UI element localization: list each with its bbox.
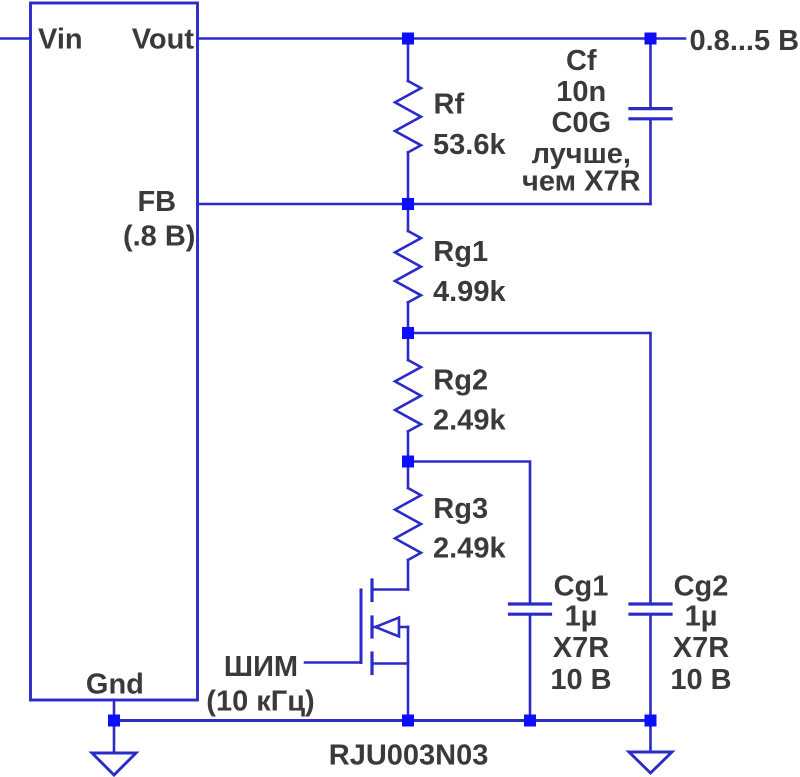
transistor Q1 channel segment drain xyxy=(370,580,373,601)
svg-text:RJU003N03: RJU003N03 xyxy=(329,740,489,772)
svg-text:Cf: Cf xyxy=(566,45,597,77)
wire node B to Cg2 xyxy=(408,333,651,604)
svg-text:2.49k: 2.49k xyxy=(433,533,506,565)
capacitor Cg1 plates xyxy=(510,602,551,605)
svg-text:10 В: 10 В xyxy=(670,664,731,696)
svg-text:1µ: 1µ xyxy=(565,600,598,632)
wire FB net xyxy=(198,203,651,206)
svg-text:ШИМ: ШИМ xyxy=(224,651,298,683)
svg-text:Cg1: Cg1 xyxy=(554,570,609,602)
svg-text:(.8 В): (.8 В) xyxy=(123,220,196,252)
svg-text:Rg3: Rg3 xyxy=(433,493,488,525)
wire PWM gate input xyxy=(305,661,361,664)
svg-text:Rg2: Rg2 xyxy=(433,365,488,397)
transistor Q1 channel segment source xyxy=(370,653,373,674)
svg-text:53.6k: 53.6k xyxy=(433,129,506,161)
svg-text:Rf: Rf xyxy=(434,89,465,121)
transistor Q1 body stub xyxy=(372,626,408,629)
svg-text:Rg1: Rg1 xyxy=(433,236,488,268)
ground symbol left xyxy=(92,753,136,775)
node Vout-Rf xyxy=(402,33,414,45)
node Rg2-Rg3 xyxy=(402,456,414,468)
wire Vout bus xyxy=(198,37,686,40)
transistor Q1 source stub xyxy=(372,662,408,665)
wire node C to Cg1 xyxy=(408,462,530,605)
right ground lead xyxy=(649,721,652,752)
svg-text:C0G: C0G xyxy=(551,107,611,139)
capacitor Cf plates xyxy=(630,107,671,110)
svg-text:Vout: Vout xyxy=(132,24,195,56)
transistor Q1 gate bar xyxy=(360,590,363,663)
svg-text:FB: FB xyxy=(137,186,176,218)
svg-text:Gnd: Gnd xyxy=(86,668,144,700)
svg-text:10n: 10n xyxy=(556,76,606,108)
ground symbol right xyxy=(629,752,672,773)
svg-text:4.99k: 4.99k xyxy=(433,276,506,308)
svg-text:Vin: Vin xyxy=(38,24,83,56)
node Cg2-rail xyxy=(645,715,657,727)
node Cg1-rail xyxy=(524,715,536,727)
resistor Rf zigzag xyxy=(395,81,421,152)
resistor Rg3 zigzag xyxy=(395,488,421,560)
capacitor Cg2 plates xyxy=(630,602,671,605)
ground rail xyxy=(114,719,651,722)
resistor Rf leads xyxy=(407,39,410,82)
node Gnd-rail xyxy=(108,715,120,727)
resistor Rg2 leads xyxy=(407,333,410,360)
resistor Rg2 zigzag xyxy=(395,360,421,431)
resistor Rg1 zigzag xyxy=(395,231,421,302)
node FB-Rf-Rg1 xyxy=(402,198,414,210)
capacitor Cf top lead xyxy=(649,39,652,108)
transistor Q1 body arrow xyxy=(376,618,400,637)
transistor Q1 channel segment body xyxy=(370,617,373,637)
svg-text:10 В: 10 В xyxy=(550,664,611,696)
node source-rail xyxy=(402,715,414,727)
left ground lead xyxy=(113,721,116,753)
svg-text:0.8...5 В: 0.8...5 В xyxy=(690,25,800,57)
resistor Rg1 leads xyxy=(407,204,410,231)
svg-text:1µ: 1µ xyxy=(685,600,718,632)
svg-text:2.49k: 2.49k xyxy=(433,404,506,436)
capacitor Cf bottom lead xyxy=(649,120,652,204)
capacitor Cg1 bottom lead xyxy=(529,616,532,721)
IC U1 box xyxy=(31,3,198,700)
svg-text:X7R: X7R xyxy=(673,632,729,664)
svg-text:Cg2: Cg2 xyxy=(674,570,729,602)
svg-text:(10 кГц): (10 кГц) xyxy=(206,686,314,718)
wire Vin input xyxy=(0,37,31,40)
transistor Q1 drain stub xyxy=(372,588,408,591)
node Rg1-Rg2 xyxy=(402,327,414,339)
resistor Rg3 leads xyxy=(407,462,410,489)
node Vout-Cf xyxy=(645,33,657,45)
transistor Q1 source lead xyxy=(407,627,410,721)
svg-text:чем X7R: чем X7R xyxy=(522,166,641,198)
Gnd pin stub xyxy=(113,700,116,721)
capacitor Cg2 bottom lead xyxy=(649,616,652,721)
svg-text:X7R: X7R xyxy=(553,632,609,664)
